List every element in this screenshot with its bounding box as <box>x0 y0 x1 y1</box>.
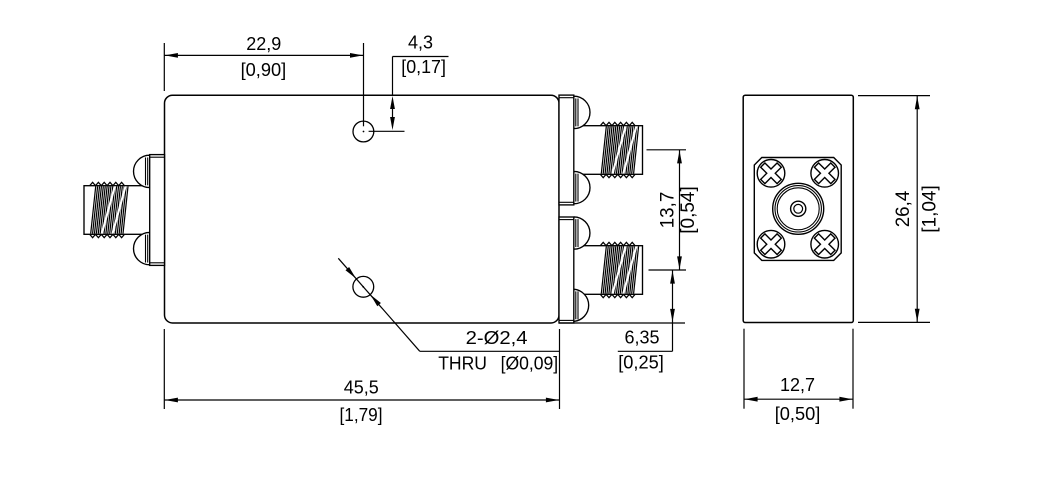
svg-text:[0,25]: [0,25] <box>618 352 664 373</box>
svg-text:13,7: 13,7 <box>656 192 678 229</box>
svg-text:THRU [Ø0,09]: THRU [Ø0,09] <box>438 353 558 374</box>
svg-text:6,35: 6,35 <box>625 327 660 348</box>
svg-text:[1,04]: [1,04] <box>919 185 941 233</box>
svg-text:4,3: 4,3 <box>408 33 433 54</box>
svg-text:[0,90]: [0,90] <box>241 60 287 81</box>
svg-text:[0,17]: [0,17] <box>401 57 446 78</box>
svg-text:[0,54]: [0,54] <box>677 186 699 234</box>
svg-text:12,7: 12,7 <box>780 375 815 396</box>
svg-text:22,9: 22,9 <box>246 34 281 55</box>
svg-text:26,4: 26,4 <box>892 191 914 228</box>
svg-text:[0,50]: [0,50] <box>775 404 821 425</box>
svg-text:45,5: 45,5 <box>344 377 379 398</box>
svg-text:2-Ø2,4: 2-Ø2,4 <box>466 328 528 349</box>
svg-text:[1,79]: [1,79] <box>340 405 383 426</box>
